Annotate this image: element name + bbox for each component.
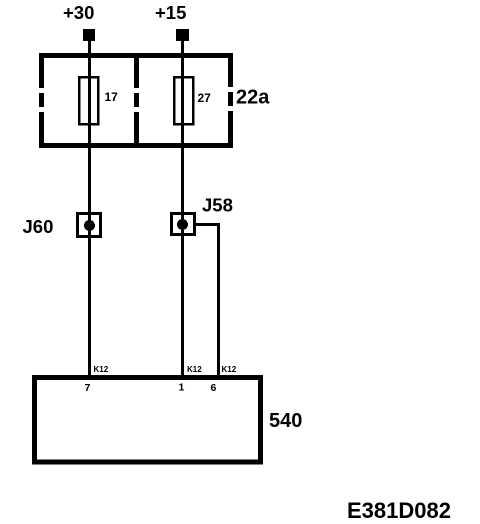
wire from +15 terminal through fuse 27 and J58 to pin 1: [181, 41, 184, 377]
fuse box 22a: [39, 53, 233, 148]
wire from +30 terminal through fuse 17 and J60 to pin 7: [88, 41, 91, 377]
svg-text:+30: +30: [63, 2, 94, 23]
svg-text:+15: +15: [155, 2, 186, 23]
fuse 27: [174, 77, 193, 124]
connector J60: [78, 214, 101, 237]
wire branch from J58 to pin 6 (vertical): [217, 223, 220, 377]
terminal +15: [176, 29, 189, 41]
svg-text:22a: 22a: [236, 87, 270, 109]
svg-text:540: 540: [269, 410, 302, 432]
left border (dashed): [39, 53, 44, 88]
svg-text:K12: K12: [94, 365, 109, 374]
right border (dashed): [228, 53, 233, 87]
bottom border: [39, 143, 233, 148]
svg-text:27: 27: [198, 91, 212, 105]
svg-text:1: 1: [179, 382, 185, 394]
svg-text:E381D082: E381D082: [347, 498, 451, 523]
wire branch from J58 to pin 6 (horizontal): [196, 223, 220, 226]
svg-text:6: 6: [211, 382, 217, 394]
control unit 540: [35, 378, 261, 463]
middle divider (dashed): [134, 53, 139, 88]
svg-text:7: 7: [85, 382, 91, 394]
fuse 17: [79, 77, 98, 124]
svg-text:J60: J60: [23, 216, 54, 237]
terminal +30: [83, 29, 95, 41]
svg-text:K12: K12: [187, 365, 202, 374]
connector J58: [172, 214, 195, 235]
top border: [39, 53, 233, 58]
svg-text:J58: J58: [202, 195, 233, 216]
svg-text:K12: K12: [222, 365, 237, 374]
svg-text:17: 17: [105, 90, 119, 104]
